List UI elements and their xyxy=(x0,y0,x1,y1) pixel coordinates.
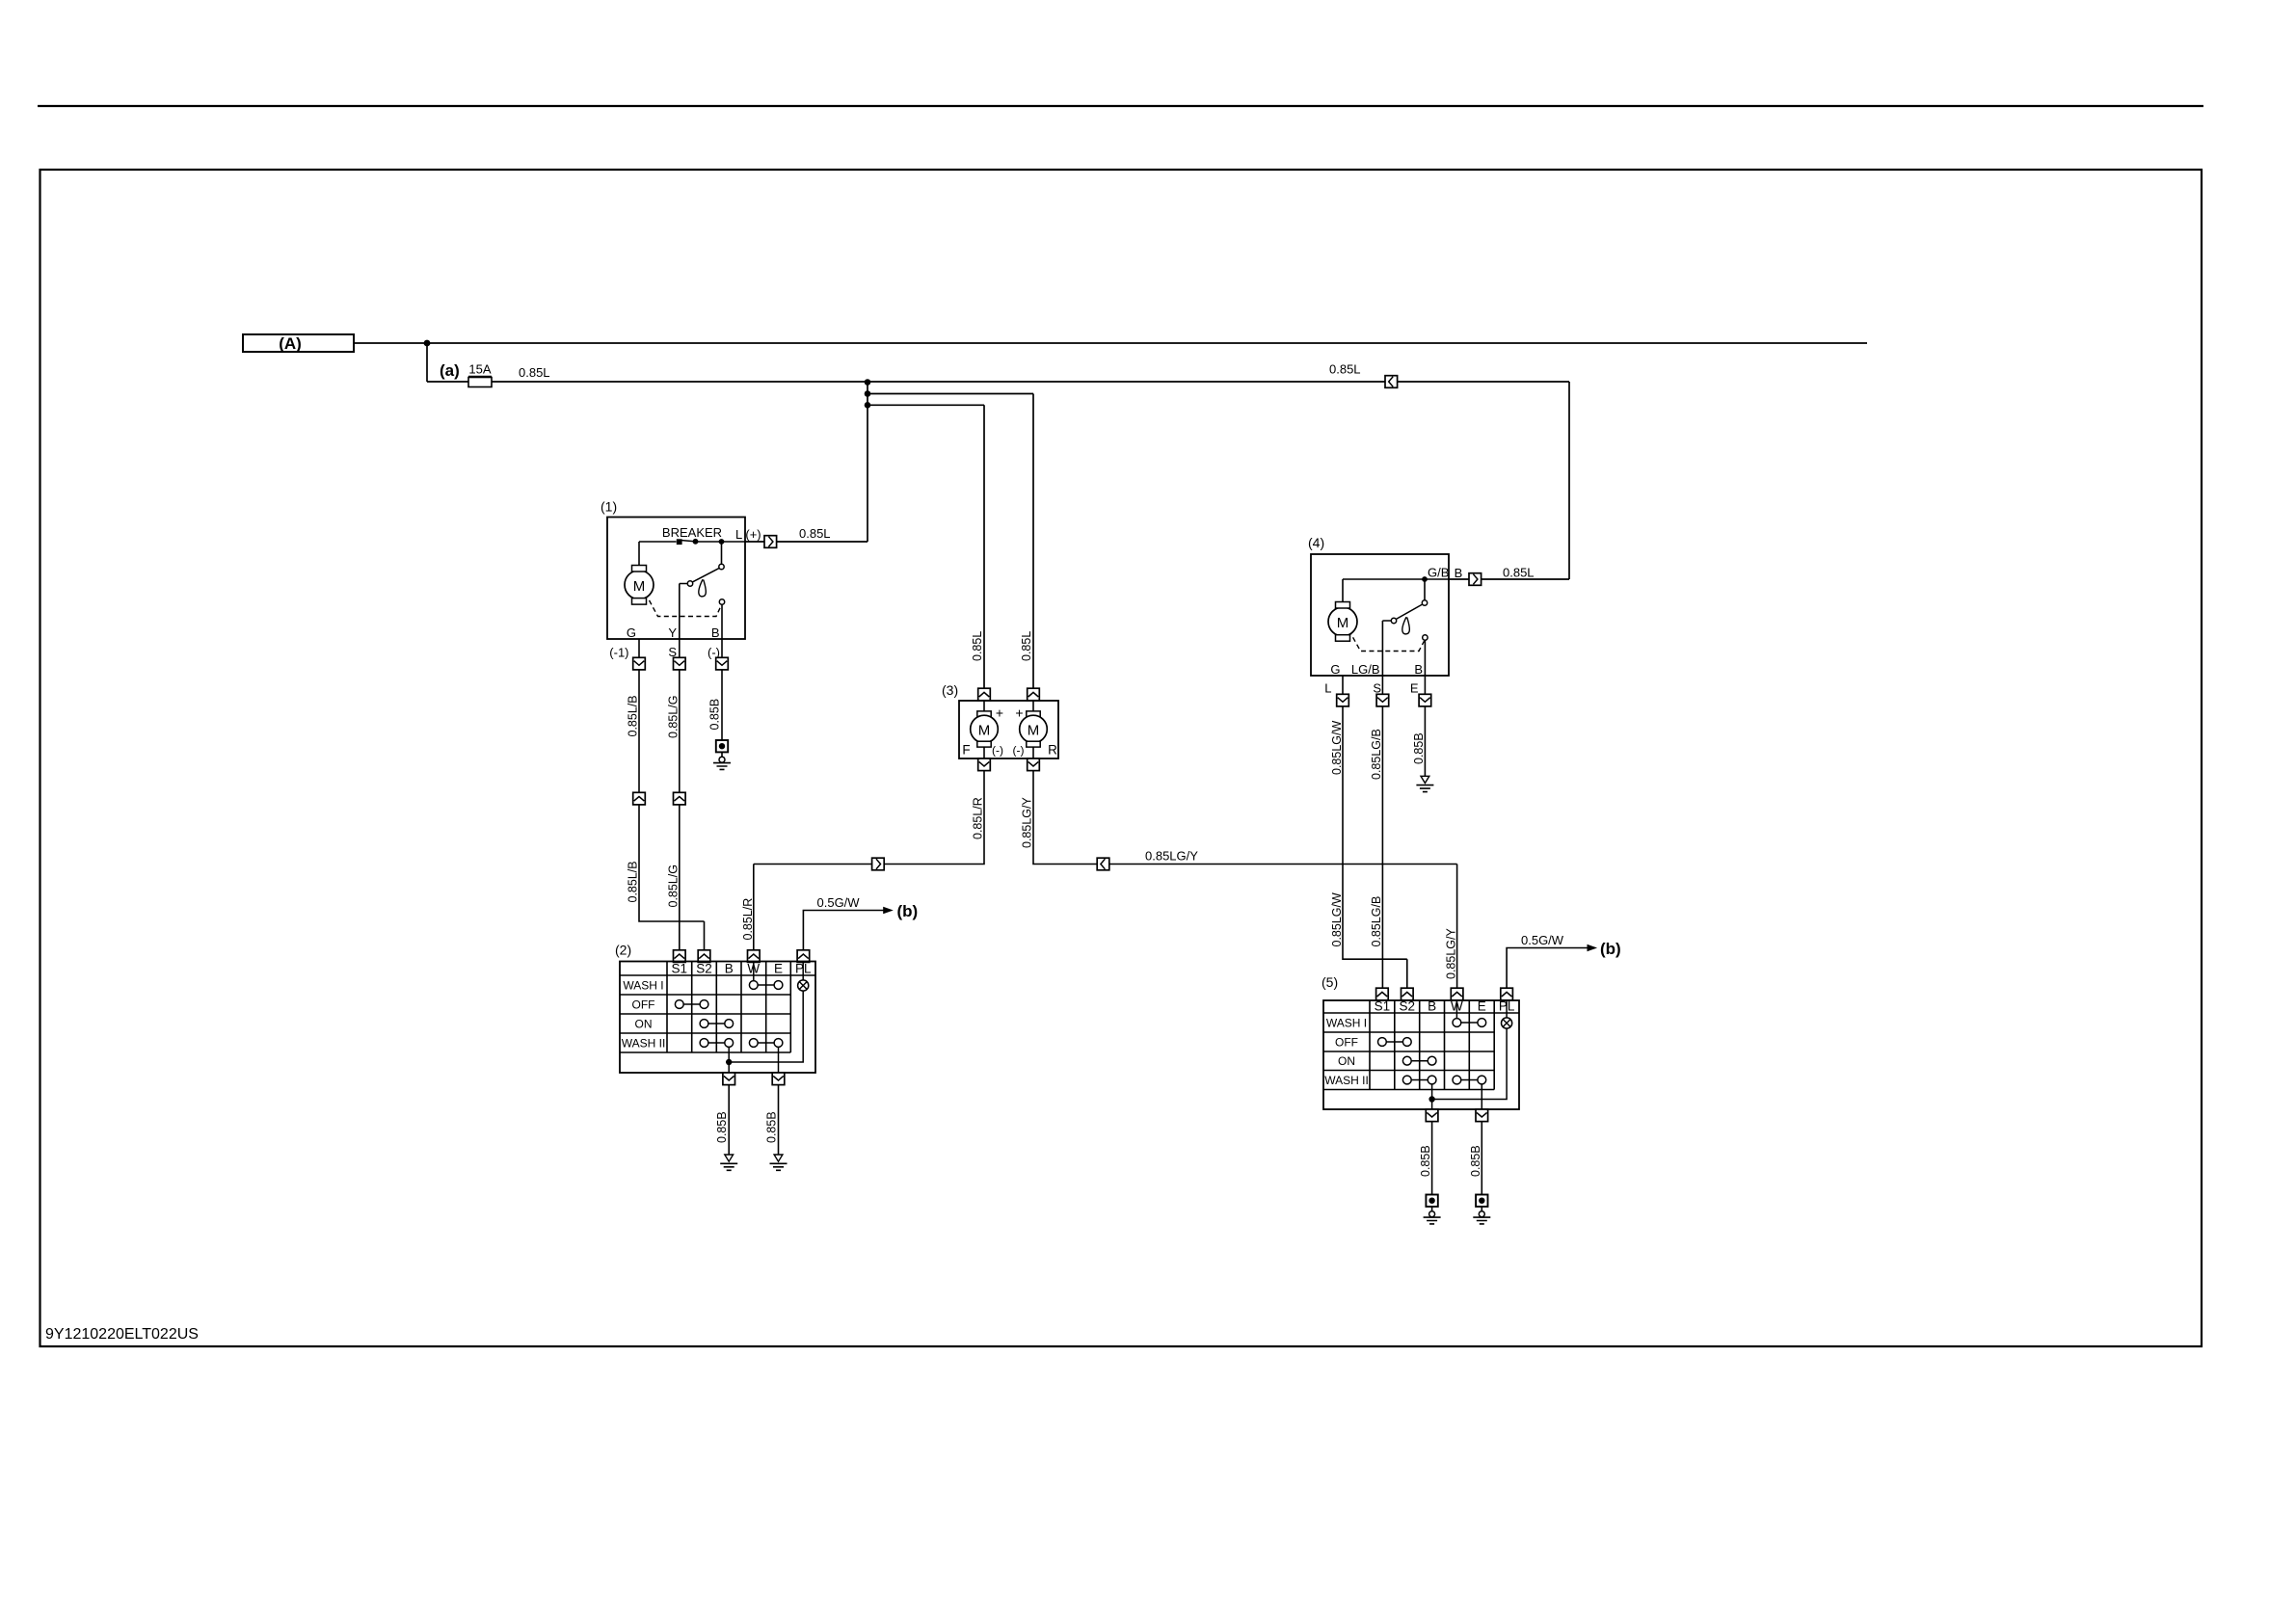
svg-text:0.85L: 0.85L xyxy=(1503,566,1535,580)
wire into L(+) pin xyxy=(745,541,764,543)
svg-text:L (+): L (+) xyxy=(735,527,761,542)
svg-text:(-): (-) xyxy=(1013,744,1025,758)
svg-text:ON: ON xyxy=(635,1018,653,1031)
svg-text:0.85L: 0.85L xyxy=(971,631,984,661)
connector S2 (2) xyxy=(698,950,710,963)
pivot contact (4) xyxy=(1391,618,1396,623)
wire E 0.85B to ground (5) xyxy=(1481,1122,1482,1195)
svg-text:LG/B: LG/B xyxy=(1351,662,1380,677)
svg-text:(b): (b) xyxy=(1600,940,1621,958)
svg-text:(2): (2) xyxy=(615,943,631,958)
svg-text:S2: S2 xyxy=(1400,999,1416,1014)
cam follower drop (1) xyxy=(699,580,706,597)
wire lower contact to B pin (1) xyxy=(721,604,723,639)
junction node B-PL (5) xyxy=(1428,1096,1434,1102)
ground B (2) xyxy=(720,1155,737,1170)
connector B (1) xyxy=(716,657,729,670)
svg-text:(-): (-) xyxy=(992,744,1003,758)
connector S1 (5) xyxy=(1376,988,1389,1000)
svg-text:E: E xyxy=(1478,999,1486,1014)
wire B pin down xyxy=(721,639,723,657)
svg-text:(A): (A) xyxy=(279,334,302,353)
svg-text:M: M xyxy=(1028,723,1040,739)
wire 0.85B to ground (4) xyxy=(1424,706,1426,776)
connector W (5) xyxy=(1451,988,1463,1000)
svg-text:(b): (b) xyxy=(897,902,919,920)
contacts ON S2-B (2) xyxy=(700,1020,708,1028)
connector pair on 0.85LG/Y xyxy=(1097,858,1109,870)
wire: right feed drop to (4) xyxy=(1568,382,1570,579)
svg-text:WASH I: WASH I xyxy=(623,979,663,993)
breaker contact square xyxy=(677,539,682,545)
svg-text:OFF: OFF xyxy=(632,998,655,1012)
junction node G/B (4) xyxy=(1422,576,1428,582)
connector E below (5) xyxy=(1476,1109,1488,1122)
connector L (4) xyxy=(1337,694,1349,706)
junction node bus 2 xyxy=(865,390,871,397)
contacts WASH II W-E (2) xyxy=(749,1039,758,1048)
svg-text:B: B xyxy=(725,962,734,976)
wire: F motor (-) to W of (2) 0.85L/R xyxy=(754,771,984,950)
motor M (1) xyxy=(638,542,640,566)
connector S (4) xyxy=(1376,694,1389,706)
svg-text:G: G xyxy=(627,625,636,640)
wire B 0.85B to ground (2) xyxy=(728,1085,730,1155)
contacts WASH II W-E (5) xyxy=(1453,1076,1461,1084)
wire 0.85L/B upper run xyxy=(638,670,640,792)
connector on (4) B feed xyxy=(1469,573,1482,586)
internal lamp return wire (5) xyxy=(1432,1028,1508,1099)
W feeder stub (5) xyxy=(1455,1000,1457,1019)
wire lower contact to E pin (4) xyxy=(1424,640,1426,676)
connector PL (2) xyxy=(797,950,810,963)
connector F bottom xyxy=(978,758,991,771)
box (4) xyxy=(1311,554,1449,676)
svg-text:0.85L: 0.85L xyxy=(1329,362,1361,377)
pivot contact (1) xyxy=(687,581,692,586)
motor R (3) xyxy=(1032,701,1034,711)
svg-text:0.85LG/B: 0.85LG/B xyxy=(1370,729,1383,780)
internal E pin wire (5) xyxy=(1481,1084,1482,1109)
pilot lamp (2) xyxy=(798,980,809,991)
contacts OFF S1-S2 (2) xyxy=(675,1000,683,1009)
svg-text:(-1): (-1) xyxy=(609,646,628,660)
breaker blade xyxy=(681,541,695,542)
W feeder stub (2) xyxy=(753,962,755,981)
mechanical link dashed (1) xyxy=(646,594,722,617)
wire: branch to rear wiper motor feed xyxy=(868,394,1033,689)
svg-text:+: + xyxy=(1015,705,1023,721)
svg-text:+: + xyxy=(996,705,1003,721)
svg-text:B: B xyxy=(1414,662,1423,677)
svg-text:0.85B: 0.85B xyxy=(764,1111,778,1143)
connector B below (5) xyxy=(1426,1109,1438,1122)
svg-text:(1): (1) xyxy=(601,499,617,515)
contacts WASH II S2-B (5) xyxy=(1402,1076,1411,1084)
svg-text:E: E xyxy=(774,962,783,976)
connector B below (2) xyxy=(723,1073,735,1085)
wire internal top (4) xyxy=(1343,578,1449,580)
wire 0.85L/B lower run to S2 xyxy=(639,805,705,950)
connector R bottom xyxy=(1028,758,1040,771)
svg-text:WASH II: WASH II xyxy=(1324,1074,1369,1087)
PL feeder stub (2) xyxy=(802,962,804,981)
svg-text:0.85L/B: 0.85L/B xyxy=(627,695,640,736)
wire 0.85L/G lower run to S1 xyxy=(679,805,681,950)
ground terminal B (5) xyxy=(1424,1195,1441,1224)
wire pivot to S pin (4) xyxy=(1382,621,1391,676)
wire Y pin down xyxy=(679,639,681,657)
svg-text:Y: Y xyxy=(668,625,677,640)
svg-text:0.85L/B: 0.85L/B xyxy=(627,861,640,902)
switch arm (1) xyxy=(692,568,719,582)
wire G pin down xyxy=(638,639,640,657)
connector F top xyxy=(978,688,991,701)
wire: bus drop to breaker (1) xyxy=(777,382,868,542)
svg-text:0.85B: 0.85B xyxy=(1469,1145,1482,1177)
diagram border frame xyxy=(40,170,2203,1346)
svg-text:WASH I: WASH I xyxy=(1326,1017,1367,1030)
box (1) xyxy=(607,518,745,640)
arrow to (b) xyxy=(883,907,894,914)
motor F (3) xyxy=(983,701,985,711)
arrow to (b) right xyxy=(1588,945,1598,951)
svg-text:B: B xyxy=(711,625,720,640)
upper contact (1) xyxy=(719,564,724,569)
wire E 0.85B to ground (2) xyxy=(778,1085,780,1155)
contacts WASH I W-E (5) xyxy=(1453,1019,1461,1027)
svg-text:0.85LG/W: 0.85LG/W xyxy=(1330,721,1344,775)
internal lamp return wire (2) xyxy=(729,991,803,1062)
svg-text:OFF: OFF xyxy=(1335,1036,1358,1050)
wire internal top (1) xyxy=(639,541,745,543)
svg-text:0.85B: 0.85B xyxy=(707,699,721,731)
connector block (A) xyxy=(243,334,354,352)
wire 0.85LG/W run (4) to S2 of (5) xyxy=(1343,706,1407,988)
svg-text:0.85LG/Y: 0.85LG/Y xyxy=(1020,797,1033,848)
svg-text:S2: S2 xyxy=(696,962,712,976)
ground terminal E (5) xyxy=(1473,1195,1490,1224)
wire 0.85L/G upper run xyxy=(679,670,681,792)
svg-text:0.85B: 0.85B xyxy=(715,1111,729,1143)
PL feeder stub (5) xyxy=(1506,1000,1508,1018)
wire 0.85LG/B run (4) to S1 of (5) xyxy=(1381,706,1383,988)
svg-text:E: E xyxy=(1410,681,1419,696)
wire E pin down (4) xyxy=(1424,676,1426,694)
connector S2 (5) xyxy=(1402,988,1414,1000)
svg-text:0.85L: 0.85L xyxy=(1020,631,1033,661)
grid (5) xyxy=(1370,1000,1494,1090)
wire: main feed from (A) xyxy=(354,342,1867,344)
contacts WASH I W-E (2) xyxy=(749,981,758,990)
junction node to switch contact xyxy=(719,539,725,545)
internal B pin wire (5) xyxy=(1431,1084,1433,1109)
box (2) xyxy=(620,962,815,1074)
page top rule xyxy=(38,105,2203,107)
svg-text:0.85LG/Y: 0.85LG/Y xyxy=(1145,849,1198,864)
wire B pin out of (4) xyxy=(1449,578,1569,580)
connector W (2) xyxy=(748,950,761,963)
connector pair on 0.85L/R xyxy=(872,858,885,870)
svg-text:G: G xyxy=(1330,662,1340,677)
contacts OFF S1-S2 (5) xyxy=(1378,1038,1387,1047)
wire S pin down (4) xyxy=(1381,676,1383,694)
wire pivot to S pin (1) xyxy=(680,584,688,640)
contacts WASH II S2-B (2) xyxy=(700,1039,708,1048)
connector E (4) xyxy=(1419,694,1431,706)
svg-text:(4): (4) xyxy=(1308,535,1324,550)
wire: R motor (-) bus 0.85LG/Y to W of (5) xyxy=(1033,771,1457,989)
svg-text:0.85L/G: 0.85L/G xyxy=(666,696,680,738)
wire stub to upper contact (1) xyxy=(721,542,723,564)
svg-text:B: B xyxy=(1428,999,1436,1014)
wire: fused feed 0.85L xyxy=(427,381,1569,383)
svg-text:0.85LG/B: 0.85LG/B xyxy=(1370,896,1383,947)
connector Y (1) xyxy=(674,657,686,670)
connector on breaker feed L(+) xyxy=(764,536,777,548)
svg-text:S1: S1 xyxy=(672,962,688,976)
box (3) xyxy=(959,701,1058,758)
connector PL (5) xyxy=(1501,988,1513,1000)
svg-text:0.85L/R: 0.85L/R xyxy=(741,898,755,941)
connector S1 (2) xyxy=(674,950,686,963)
svg-text:M: M xyxy=(633,578,646,595)
lower contact (1) xyxy=(719,599,724,604)
svg-text:0.85L/R: 0.85L/R xyxy=(971,797,984,839)
svg-text:F: F xyxy=(962,743,970,758)
connector G (1) xyxy=(633,657,646,670)
wire L pin down (4) xyxy=(1342,676,1344,694)
svg-text:0.85LG/Y: 0.85LG/Y xyxy=(1444,928,1457,979)
wire 0.5G/W to (b) xyxy=(803,911,884,950)
mechanical link dashed (4) xyxy=(1349,630,1425,652)
svg-text:ON: ON xyxy=(1338,1054,1355,1068)
junction node bus 3 xyxy=(865,402,871,409)
svg-text:S: S xyxy=(1373,681,1381,696)
svg-text:0.5G/W: 0.5G/W xyxy=(1521,933,1564,947)
connector pair on 0.85L feed xyxy=(1385,376,1398,388)
connector R top xyxy=(1028,688,1040,701)
motor M (4) xyxy=(1342,579,1344,602)
grid (2) xyxy=(667,962,790,1053)
svg-text:(3): (3) xyxy=(942,682,958,698)
upper contact (4) xyxy=(1422,600,1427,605)
box (5) xyxy=(1323,1000,1519,1109)
svg-text:0.85L/G: 0.85L/G xyxy=(666,865,680,907)
svg-text:WASH II: WASH II xyxy=(622,1037,666,1051)
svg-text:9Y1210220ELT022US: 9Y1210220ELT022US xyxy=(45,1326,199,1343)
connector E below (2) xyxy=(772,1073,785,1085)
ground E (2) xyxy=(770,1155,788,1170)
inline connector 0.85L/B xyxy=(633,792,646,805)
svg-text:15A: 15A xyxy=(468,362,491,377)
cam follower drop (4) xyxy=(1402,618,1409,634)
wire 0.5G/W to (b) right xyxy=(1507,948,1588,989)
svg-text:0.85B: 0.85B xyxy=(1412,732,1426,764)
svg-text:0.85LG/W: 0.85LG/W xyxy=(1330,892,1344,946)
pilot lamp (5) xyxy=(1502,1018,1512,1028)
internal E pin wire (2) xyxy=(778,1047,780,1073)
svg-text:(5): (5) xyxy=(1322,974,1338,990)
wire: branch to front wiper motor feed xyxy=(868,405,984,688)
wire stub to upper contact (4) xyxy=(1424,579,1426,600)
internal B pin wire (2) xyxy=(728,1047,730,1073)
wire B 0.85B to ground (5) xyxy=(1431,1122,1433,1195)
svg-text:M: M xyxy=(1337,615,1349,631)
svg-text:0.85L: 0.85L xyxy=(519,365,550,380)
svg-text:0.85L: 0.85L xyxy=(799,526,831,541)
svg-text:L: L xyxy=(1324,681,1331,696)
svg-text:R: R xyxy=(1048,743,1057,758)
svg-text:0.85B: 0.85B xyxy=(1419,1145,1432,1177)
switch arm (4) xyxy=(1396,604,1422,619)
wire 0.85B to ground xyxy=(721,670,723,740)
svg-text:M: M xyxy=(978,723,991,739)
inline connector 0.85L/G xyxy=(674,792,686,805)
wire: drop to fuse (a) xyxy=(426,343,428,382)
breaker contact dot xyxy=(693,539,699,545)
svg-text:G/B: G/B xyxy=(1428,566,1449,580)
lower contact (4) xyxy=(1423,635,1428,640)
svg-text:S1: S1 xyxy=(1375,999,1391,1014)
svg-text:(a): (a) xyxy=(440,361,460,380)
ground terminal (1) xyxy=(713,740,731,769)
junction node at (a) tap xyxy=(424,340,431,347)
svg-text:BREAKER: BREAKER xyxy=(662,525,722,540)
junction node bus 1 xyxy=(865,379,871,386)
svg-text:B: B xyxy=(1455,566,1463,580)
contacts ON S2-B (5) xyxy=(1402,1056,1411,1065)
ground E (4) xyxy=(1416,776,1433,791)
svg-text:0.5G/W: 0.5G/W xyxy=(817,895,861,910)
junction node B-PL (2) xyxy=(726,1059,732,1065)
